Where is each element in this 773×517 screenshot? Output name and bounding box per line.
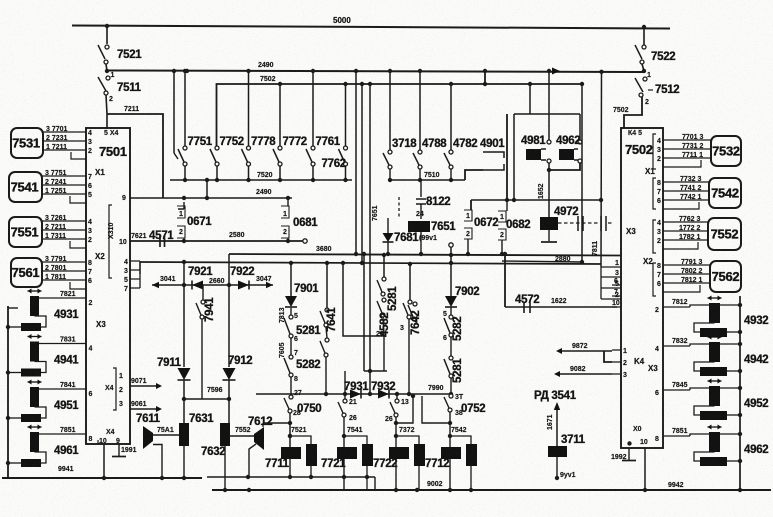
connector 0681 pin 2 bbox=[281, 226, 289, 238]
bracket pins right edge group1 bbox=[653, 134, 656, 169]
wire 7512 to 7502 box bbox=[624, 97, 642, 128]
wire LDR to bus 4952 bbox=[720, 387, 740, 389]
diode 7902 bbox=[445, 296, 457, 307]
switch 7751 bbox=[183, 146, 187, 150]
wire inner rail drop to bus bbox=[374, 477, 376, 490]
wire 7561 row 1 7811 bbox=[42, 279, 86, 281]
wire 7711 column bottom bbox=[289, 459, 291, 477]
wire 7711 link to vertical bbox=[290, 436, 311, 444]
wire switch 7772 to rail 7520 bbox=[279, 166, 281, 180]
wire feed switch 7778 bbox=[248, 71, 250, 146]
wire 7551 row 2 7211 bbox=[42, 229, 86, 231]
speaker 7611 bbox=[143, 426, 153, 449]
wire 4981 to 4972 bbox=[548, 163, 550, 217]
wire 7551 row 1 7311 bbox=[42, 238, 86, 240]
photoresistor 4941 (filled) bbox=[30, 342, 39, 362]
wire left bus top stub bbox=[8, 307, 18, 309]
wire switch 4788 to rail 7510 bbox=[419, 169, 421, 180]
resistor 4932 lower (filled) bbox=[700, 328, 727, 337]
device 7532 box bbox=[711, 136, 741, 166]
wire LDR bottom drop 4931 bbox=[34, 315, 36, 317]
resistor 7711 vertical (filled) bbox=[306, 444, 317, 466]
wire 7712 vertical resistor bottom bbox=[470, 466, 472, 490]
wire resistor to LDR 4941 bbox=[35, 362, 47, 373]
device 7552 box bbox=[708, 218, 741, 250]
connector 0671 pin 2 bbox=[177, 226, 185, 238]
wire 0682 pin2 to bus bbox=[501, 240, 503, 254]
wire 7552 row 1772 2 bbox=[663, 230, 708, 232]
connector 0671 pin 1 bbox=[178, 202, 184, 209]
wire 4962 from 7502 pin bbox=[663, 435, 690, 437]
wire 7501 pin9 stub bbox=[97, 440, 99, 444]
wire 7681 to 3680 bus bbox=[387, 242, 389, 254]
junction top bus / 7522 bbox=[642, 25, 646, 29]
diode 7901 bbox=[285, 296, 297, 307]
wire pin2 bend bbox=[604, 351, 612, 362]
terminal 1991 bbox=[118, 444, 120, 456]
junction row x324 skip bbox=[343, 392, 347, 396]
wire lower resistor 4932 links bbox=[694, 323, 715, 332]
resistor 7722 vertical (filled) bbox=[414, 444, 425, 466]
switch 4788 bbox=[418, 150, 422, 154]
switch pair 4582/5281 column x384 bbox=[383, 255, 385, 277]
wire x514 drop to 0682 rail bbox=[513, 114, 515, 200]
wire 7501 bottom to bus bbox=[103, 444, 105, 478]
photoresistor 4962 (filled) bbox=[709, 432, 720, 452]
wire resistor to LDR 4931 bbox=[35, 316, 47, 327]
wire left bus vertical bbox=[7, 306, 9, 478]
wire switch 7752 to rail 7520 bbox=[216, 166, 218, 180]
wire 7641 column from lower bus bbox=[326, 263, 328, 308]
resistor 4962 lower (filled) bbox=[700, 457, 727, 466]
connector 0681 pin 1 bbox=[286, 196, 290, 200]
terminal circle end of 2580 bbox=[303, 239, 307, 243]
resistor 7631 (filled) bbox=[179, 423, 189, 446]
wire rail 7510 corner down x465 bbox=[465, 170, 483, 180]
LDR double arrow 4931 bbox=[28, 290, 42, 292]
device 7531 box bbox=[11, 128, 43, 158]
wire long vertical from 2490 x356 bbox=[355, 71, 357, 254]
ground bar 4972 bbox=[541, 241, 557, 243]
wire feed switch 7762 bbox=[345, 84, 347, 146]
scan noise overlay bbox=[0, 0, 1, 1]
wire 4572 left hook bbox=[504, 253, 506, 307]
LDR double arrow 4952 bbox=[708, 380, 722, 382]
wire resistor to LDR 4961 bbox=[35, 452, 47, 463]
bracket pins right edge group4 bbox=[653, 263, 656, 296]
capacitor 4572 bbox=[524, 303, 530, 313]
wire 7631 to bus bbox=[183, 446, 185, 478]
wire 4962 bottom to 4981 column bbox=[549, 163, 580, 170]
device 7541 box bbox=[9, 172, 42, 202]
resistor 7632 (filled) bbox=[220, 423, 230, 446]
wire 7542 row 7732 3 bbox=[663, 181, 709, 183]
wire feed switch 4782 bbox=[450, 84, 452, 150]
wire switch 7751 to rail 7520 bbox=[184, 166, 186, 180]
optocoupler 4962 bbox=[559, 149, 574, 160]
wire switch 7778 to rail 7520 bbox=[248, 166, 250, 180]
wire stubs x601 to 7502 left pins bbox=[601, 267, 621, 299]
bracket 7501 pins 4 3 5 7 bbox=[130, 261, 140, 288]
dashed wire left of 7651 bbox=[398, 197, 400, 218]
resistor 4951 lower (filled) bbox=[21, 414, 41, 422]
wire rail 7520 bbox=[170, 179, 352, 181]
switch 5282 (left col) bbox=[290, 338, 292, 355]
wire rail 7510 bbox=[390, 179, 465, 181]
wire 7561 corner drop bbox=[70, 282, 86, 289]
wire 4941 to 7501 pin bbox=[39, 343, 86, 345]
wire x582 vertical from 7502 bus to 2880 rail bbox=[581, 84, 583, 262]
wire 0681 pin2 down bbox=[287, 238, 289, 241]
junction top bus / 7521 bbox=[105, 24, 109, 28]
wire 7552 row 7762 3 bbox=[663, 221, 708, 223]
switch 7641 upper contacts bbox=[325, 308, 329, 312]
wire 7562 row 7802 2 bbox=[663, 273, 710, 275]
wire 0671 pin2 to 2580 rail bbox=[183, 238, 185, 241]
wire LDR bottom drop 4961 bbox=[34, 451, 36, 453]
wire switch 4782 to rail 7510 bbox=[450, 169, 452, 180]
wire 7632 to bottom bus bbox=[224, 446, 226, 490]
resistor 4941 lower (filled) bbox=[21, 369, 41, 377]
resistor 7712 vertical (filled) bbox=[466, 444, 477, 466]
wire 4942 from 7502 pin bbox=[663, 345, 690, 347]
wire lower resistor 4962 links bbox=[694, 452, 715, 461]
wire 7642 bottom to row bbox=[408, 319, 410, 394]
wire 2490 rail pin9 to 0681 bbox=[130, 197, 292, 199]
photoresistor 4952 (filled) bbox=[709, 386, 720, 406]
resistor 7711 horizontal (filled) bbox=[281, 447, 301, 459]
junction row x397 bbox=[395, 392, 399, 396]
diode 7921 bbox=[192, 281, 203, 290]
IC 7502 box bbox=[621, 128, 663, 448]
IC 7501 box bbox=[86, 128, 130, 444]
wire 7912 to 7632 bbox=[228, 380, 230, 423]
device 7551 box bbox=[9, 217, 42, 247]
wire 7561 row 3 7791 bbox=[42, 261, 86, 263]
wire long vertical x364 from 3680 bus bbox=[363, 254, 365, 371]
diode 7931 bbox=[350, 390, 361, 399]
contact 0752 bbox=[449, 394, 453, 398]
wire 7612 bottom drop bbox=[249, 444, 256, 477]
switch 7511 bbox=[105, 69, 109, 73]
wire 3541 with up arrow bbox=[556, 404, 558, 446]
resistor 4952 lower (filled) bbox=[700, 411, 727, 420]
diode 7911 bbox=[178, 368, 191, 380]
contact 0750 bbox=[289, 395, 293, 399]
wire 7562 row 7791 3 bbox=[663, 264, 710, 266]
resistor 7712 horizontal (filled) bbox=[441, 447, 461, 459]
wire bus to resistor 4961 bbox=[8, 462, 21, 464]
wire 7722 vertical resistor bottom bbox=[418, 466, 420, 490]
wire 7531 row 3 7701 bbox=[43, 131, 86, 133]
wire 4572 rail to pin 10 bbox=[505, 306, 617, 308]
speaker 7611 bottom wire bbox=[153, 445, 162, 479]
wire 5281 to 0752 bbox=[450, 378, 452, 392]
arrowhead right 3047 bbox=[266, 282, 273, 288]
wire feed 4981 bbox=[548, 71, 550, 140]
wire 7561 row 2 7801 bbox=[42, 270, 86, 272]
wire top supply bus 5000 bbox=[72, 26, 670, 29]
junction 0671 top bbox=[182, 196, 186, 200]
connector 0672 pin 1 bbox=[464, 210, 472, 221]
wire 7532 row 7731 2 bbox=[663, 148, 711, 150]
wire column 7912 from 3680 bus bbox=[228, 254, 230, 367]
wire 7722 column bottom bbox=[395, 459, 397, 490]
junction on 2490 for 7751 bbox=[185, 69, 189, 73]
terminal 1992 bbox=[628, 448, 630, 460]
wire feed 4962 from 7502 bus bbox=[514, 113, 580, 115]
wire 7651 down to bus bbox=[420, 232, 422, 254]
device 7561 box bbox=[11, 258, 42, 287]
resistor 4931 lower (filled) bbox=[21, 323, 41, 331]
wire 7211 branch to 0671 rail bbox=[106, 114, 108, 128]
wire lower resistor 4942 links bbox=[694, 362, 715, 371]
wire 4931 to 7501 pin bbox=[39, 297, 86, 299]
wire bus to resistor 4931 bbox=[8, 326, 21, 328]
junction inner rail bbox=[288, 475, 292, 479]
connector 0672 pin 2 bbox=[464, 228, 472, 239]
switch 7762 bbox=[344, 146, 348, 150]
LDR double arrow 4951 bbox=[28, 381, 42, 383]
junction 4901/0682 wire bbox=[505, 198, 509, 202]
switch 7761 bbox=[311, 146, 315, 150]
switch 3718 bbox=[388, 150, 392, 154]
wire switch 7761 to rail 7520 bbox=[312, 166, 314, 180]
wire 7551 corner drop bbox=[70, 241, 86, 248]
wire 2580 rail bbox=[130, 240, 305, 242]
wire feed switch 7772 bbox=[279, 84, 281, 146]
wire LDR to bus 4962 bbox=[720, 433, 740, 435]
wire 4901 vertical bbox=[484, 71, 486, 84]
switch 7778 bbox=[247, 146, 251, 150]
wire 7611 lead right bbox=[153, 434, 179, 436]
wire feed switch 3718 bbox=[389, 71, 391, 150]
wire LDR to bus 4932 bbox=[720, 304, 740, 306]
wire 7541 row 1 7251 bbox=[42, 193, 86, 195]
wire 7721 vertical resistor bottom bbox=[366, 466, 368, 490]
wire 9082 arrow bbox=[558, 373, 612, 375]
junction bottom bus points bbox=[247, 488, 251, 492]
switch 4782 bbox=[449, 150, 453, 154]
wire 0672 pin1 rail bbox=[470, 200, 472, 210]
wire feed switch 4788 bbox=[419, 71, 421, 150]
photoresistor 4942 (filled) bbox=[709, 342, 720, 362]
wire 7532 corner drop bbox=[663, 160, 701, 167]
wire 7541 corner drop bbox=[70, 196, 86, 203]
wire 4582 bottom to link bbox=[383, 317, 384, 336]
wire switch 7762 to rail 7520 bbox=[345, 166, 347, 180]
switch 5281 (left col) bbox=[290, 308, 292, 315]
wire long vertical x362 from 7502 bus bbox=[361, 84, 363, 263]
bracket pins right edge group3 bbox=[653, 220, 656, 253]
wire x343 from lower bus to 4582 bbox=[343, 263, 384, 336]
wire left stub with hook near 7751 bbox=[173, 71, 175, 153]
diode 7912 bbox=[223, 368, 236, 380]
bracket X310 inside 7501 bbox=[109, 205, 112, 278]
wire switch 3718 to rail 7510 bbox=[389, 169, 391, 180]
wire 7902 column bbox=[450, 247, 452, 296]
wire 7531 row 2 7231 bbox=[43, 140, 86, 142]
wire bus to resistor 4941 bbox=[8, 372, 21, 374]
wire long vertical x370 from 7502 bus bbox=[369, 84, 371, 394]
photoresistor 4931 (filled) bbox=[30, 296, 39, 316]
wire 7541 row 2 7241 bbox=[42, 184, 86, 186]
wire 7562 row 7812 1 bbox=[663, 282, 710, 284]
wire 7542 row 7741 2 bbox=[663, 190, 709, 192]
wire 7532 row 7701 3 bbox=[663, 139, 711, 141]
device 7542 box bbox=[709, 178, 741, 208]
switch 7642 column bbox=[409, 264, 411, 300]
wire 0752 bypass loop to row bbox=[422, 396, 450, 423]
wire row 7931/7932 bbox=[256, 393, 451, 395]
junction 7921 row x229 bbox=[227, 283, 231, 287]
wire 7722 bypass loop to row bbox=[396, 396, 413, 423]
wire LDR bottom drop 4941 bbox=[34, 361, 36, 363]
switch 5282 (right col) bbox=[450, 307, 452, 315]
wire 7721 link to vertical bbox=[344, 436, 367, 444]
switch 7521 bbox=[106, 26, 108, 44]
wire 7711 vertical resistor bottom bbox=[310, 466, 312, 477]
connector 0682 pin 2 bbox=[498, 229, 506, 240]
terminal circle 7902 column top bbox=[449, 243, 453, 247]
wire 5282 to 0750 bbox=[290, 377, 292, 394]
wire feed switch 7751 bbox=[184, 71, 186, 146]
resistor 4942 lower (filled) bbox=[700, 367, 727, 376]
wire link y371 bbox=[364, 370, 387, 372]
wire resistor to LDR 4951 bbox=[35, 407, 47, 418]
wire 7531 corner drop bbox=[71, 152, 86, 159]
device 7562 box bbox=[710, 261, 741, 292]
speaker 7612 bbox=[254, 427, 264, 450]
wire LDR bottom drop 4951 bbox=[34, 406, 36, 408]
resistor 7722 horizontal (filled) bbox=[389, 447, 409, 459]
wire 9872 arrow bbox=[560, 350, 612, 352]
LDR double arrow 4962 bbox=[708, 426, 722, 428]
switch 5281 (right col) bbox=[450, 337, 452, 356]
wire bus to resistor 4951 bbox=[8, 417, 21, 419]
wire 4782 rail to 8122 bbox=[420, 180, 422, 197]
LDR double arrow 4932 bbox=[708, 297, 722, 299]
wire 7712 column bottom bbox=[449, 459, 451, 490]
bracket K4 pins 1 2 3 bbox=[612, 350, 621, 374]
wire 4932 from 7502 pin bbox=[663, 306, 690, 308]
wire bottom bus right 9002 bbox=[212, 489, 771, 491]
wire lower resistor 4952 links bbox=[694, 406, 715, 415]
wire 7911 to 7631 bbox=[183, 380, 185, 423]
wire 7542 row 7742 1 bbox=[663, 199, 709, 201]
optocoupler 4981 bbox=[526, 149, 541, 160]
wire LDR to bus 4942 bbox=[720, 343, 740, 345]
wire 7502 bottom to bus bbox=[644, 448, 646, 490]
wire 0750 to 7711 bbox=[289, 413, 291, 423]
wire arrow 9971 bbox=[130, 385, 158, 387]
wire 7532 row 7711 1 bbox=[663, 157, 711, 159]
wire column 7722 contacts bbox=[396, 394, 398, 399]
wire 7722 link to vertical bbox=[396, 436, 419, 444]
arrowhead on 2490 bus bbox=[552, 68, 560, 75]
wire 7551 row 3 7261 bbox=[42, 220, 86, 222]
photoresistor 4932 (filled) bbox=[709, 303, 720, 323]
wire rail 7520 drop to 2490 rail bbox=[206, 180, 208, 198]
wire bottom inner rail bbox=[207, 476, 375, 478]
wire 7552 corner drop bbox=[663, 242, 698, 249]
switch 7641 lower contacts bbox=[326, 327, 327, 338]
photoresistor 4951 (filled) bbox=[30, 387, 39, 407]
switch 7772 bbox=[278, 146, 282, 150]
photoresistor 4961 (filled) bbox=[30, 432, 39, 452]
bracket X4 inside lower bbox=[113, 368, 116, 410]
switch 7512 bbox=[642, 69, 646, 73]
dashed link 4972 to trimmer bbox=[558, 222, 612, 224]
wire 4952 from 7502 pin bbox=[663, 389, 690, 391]
wire bus lower (pins 4357) bbox=[140, 262, 601, 264]
wire 7542 corner drop bbox=[663, 202, 699, 209]
switch 7752 bbox=[215, 146, 219, 150]
diode 7932 bbox=[378, 390, 389, 399]
wire 0672 pin2 to bus bbox=[467, 239, 469, 254]
wire 0750 junction to speaker 7612 bbox=[263, 422, 290, 424]
wire row 7921/7922 bbox=[152, 284, 273, 286]
diode 7922 bbox=[238, 281, 249, 290]
resistor 4972 (filled) bbox=[540, 217, 558, 230]
wire 4961 to 7501 pin bbox=[39, 433, 86, 435]
wire 7721 column bottom bbox=[343, 459, 345, 490]
LDR double arrow 4961 bbox=[28, 426, 42, 428]
wire 7712 link to vertical bbox=[450, 436, 471, 444]
wire 7641 bottom to row bbox=[325, 357, 327, 394]
wire link x184-x229 at y399 bbox=[184, 398, 229, 400]
wire 7901 column from lower bus bbox=[290, 263, 292, 296]
LDR double arrow 4941 bbox=[28, 336, 42, 338]
junction 7921 row x184 bbox=[182, 283, 186, 287]
wire 3711 down bbox=[556, 457, 558, 477]
wire 0752 to 7712 bbox=[449, 412, 451, 448]
junction 7502 bottom pin bbox=[627, 441, 631, 445]
wire 4951 to 7501 pin bbox=[39, 388, 86, 390]
resistor 7651 (filled) bbox=[408, 221, 430, 232]
wire bottom bus left 9941 bbox=[2, 477, 202, 479]
wire 2880 from 0682 to x582 bbox=[502, 261, 582, 262]
switch 7941 bbox=[202, 285, 204, 300]
resistor 7721 horizontal (filled) bbox=[337, 447, 357, 459]
arrowhead left 3041 bbox=[152, 282, 159, 288]
wire feed switch 7761 bbox=[312, 71, 314, 146]
LDR double arrow 4942 bbox=[708, 336, 722, 338]
bracket pins right edge group2 bbox=[653, 178, 656, 209]
resistor 7721 vertical (filled) bbox=[362, 444, 373, 466]
resistor 4961 lower (filled) bbox=[21, 459, 41, 467]
pins stubs 7502 left (8,9,10) bbox=[612, 285, 621, 307]
connector 0682 pin 1 bbox=[498, 211, 506, 222]
capacitor marks on dashed link bbox=[578, 216, 606, 231]
wire arrow 9961 bbox=[130, 408, 158, 410]
wire 2490 bus bbox=[107, 71, 644, 73]
diode 7681 bbox=[387, 218, 389, 233]
wire 7612 lead left to 7632 bbox=[230, 435, 254, 437]
wire column 7721 contacts bbox=[344, 371, 346, 399]
connector 4901 upper prong bbox=[483, 152, 504, 158]
wire 7541 row 3 7751 bbox=[42, 175, 86, 177]
wire 7562 corner drop bbox=[663, 285, 700, 292]
capacitor 8122 bbox=[416, 199, 426, 204]
connector 4901 lower prong bbox=[483, 164, 504, 170]
wire 7502 net bus bbox=[217, 84, 583, 146]
wire bus 3680 upper bbox=[229, 254, 621, 256]
wire 7531 row 1 7211 bbox=[43, 149, 86, 151]
wire x601 vertical from 2490 bus to 7502 pins bbox=[600, 72, 603, 267]
wire column 7911 bbox=[183, 262, 185, 367]
wire right bus vertical bbox=[739, 296, 741, 490]
